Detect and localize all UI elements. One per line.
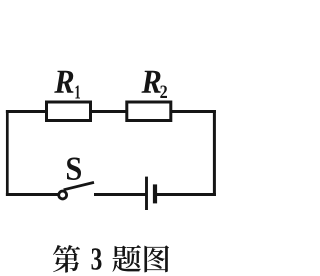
resistor R1: [47, 102, 91, 121]
label S (switch): [67, 157, 81, 180]
switch S pivot circle: [59, 191, 67, 199]
label R2 subscript 2: [160, 86, 167, 98]
caption char 题: [112, 245, 141, 272]
label R1 letter R: [54, 71, 73, 93]
wire bottom left segment: [6, 193, 59, 196]
caption digit 3: [91, 248, 101, 270]
wire bottom middle segment: [94, 193, 147, 196]
wire right: [213, 110, 216, 196]
wire left: [6, 110, 9, 196]
resistor R2: [127, 102, 171, 121]
label R2 letter R: [141, 71, 160, 93]
battery short plate: [153, 184, 157, 203]
switch S lever: [64, 182, 94, 189]
wire top: [6, 110, 216, 113]
label R1 subscript 1: [75, 86, 80, 99]
caption char 图: [144, 245, 169, 272]
battery long plate: [145, 177, 148, 210]
wire bottom right segment: [155, 193, 216, 196]
caption char 第: [53, 245, 80, 273]
